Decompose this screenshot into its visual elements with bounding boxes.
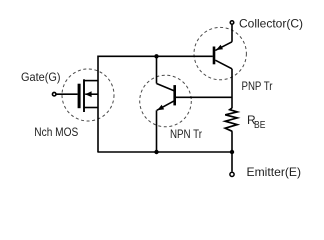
svg-text:Emitter(E): Emitter(E)	[247, 165, 302, 179]
mosfet Q1 body stub	[85, 93, 98, 95]
wire: gate lead	[56, 93, 77, 95]
svg-text:NPN Tr: NPN Tr	[170, 127, 202, 141]
wire: NPN collector vertical	[156, 56, 158, 83]
pnp emitter arrow	[216, 45, 223, 50]
dashed outline around PNP Tr	[194, 27, 246, 79]
wire: resistor bottom to emitter rail	[231, 131, 233, 152]
dashed outline around NPN Tr	[140, 75, 192, 127]
npn transistor base bar	[173, 85, 176, 105]
svg-text:Collector(C): Collector(C)	[239, 16, 303, 30]
mosfet Q1 gate bar	[78, 84, 81, 109]
pnp transistor base bar	[213, 47, 216, 65]
node: junction on top rail	[154, 54, 158, 58]
mosfet Q1 source stub	[84, 107, 98, 109]
svg-text:Gate(G): Gate(G)	[21, 70, 61, 84]
node: bottom rail junction at NPN emitter	[154, 150, 158, 154]
svg-text:Nch MOS: Nch MOS	[34, 125, 78, 139]
mosfet Q1 channel line	[83, 79, 85, 112]
npn emitter arrow	[157, 105, 164, 110]
wire: MOSFET drain/source vertical rail	[97, 56, 99, 153]
wire: emitter lead	[231, 152, 233, 172]
resistor R_BE zigzag	[225, 108, 237, 131]
terminal Collector(C)	[230, 21, 234, 25]
wire: NPN base to R_BE node	[176, 96, 232, 98]
npn emitter diagonal	[157, 101, 174, 110]
wire: PNP collector down to resistor	[231, 69, 233, 108]
dashed outline around Nch MOS	[62, 69, 114, 121]
wire: NPN emitter vertical	[156, 110, 158, 152]
mosfet Q1 drain stub	[84, 80, 98, 82]
npn collector diagonal	[157, 84, 175, 91]
terminal Gate(G)	[52, 92, 56, 96]
pnp collector diagonal	[215, 60, 232, 69]
wire: bottom emitter rail	[97, 151, 232, 153]
terminal Emitter(E)	[230, 172, 234, 176]
node: bottom rail junction at R_BE	[230, 150, 234, 154]
svg-text:BE: BE	[254, 120, 266, 131]
wire: collector lead	[231, 25, 233, 42]
wire: top rail from MOSFET drain rail to PNP base	[98, 55, 213, 57]
pnp emitter diagonal	[215, 42, 232, 51]
svg-text:PNP Tr: PNP Tr	[242, 79, 273, 93]
mosfet Q1 body arrow (N-channel)	[85, 91, 91, 97]
